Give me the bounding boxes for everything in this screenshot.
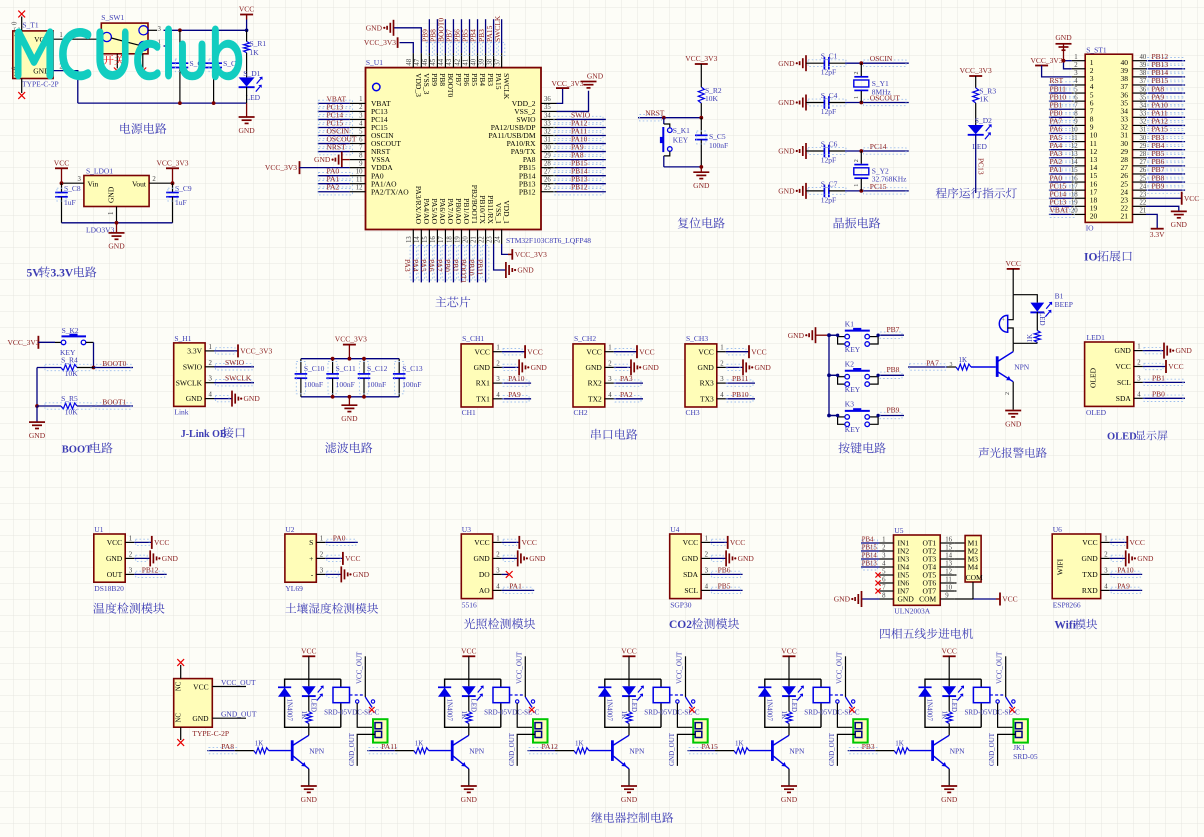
pin 24 VDD_1 of U1	[501, 230, 503, 245]
diode 1N4007	[758, 688, 771, 697]
svg-text:PA4/AO: PA4/AO	[422, 198, 431, 224]
svg-text:1: 1	[209, 344, 212, 351]
svg-text:1: 1	[854, 96, 860, 99]
svg-text:2: 2	[854, 159, 860, 162]
svg-text:16: 16	[945, 537, 952, 544]
svg-text:VCC: VCC	[941, 647, 956, 656]
svg-text:18: 18	[446, 236, 453, 243]
svg-text:2: 2	[854, 72, 860, 75]
relay LED	[788, 679, 790, 686]
no-connect at U3 pin 3	[502, 573, 509, 575]
svg-text:4: 4	[705, 583, 709, 590]
wire+net PA5 (vertical bottom)	[428, 244, 430, 282]
wire+net PB13	[861, 566, 880, 568]
svg-text:BOOT0: BOOT0	[102, 359, 126, 368]
wire+net BOOT1 (vertical bottom)	[469, 244, 471, 282]
svg-text:0: 0	[12, 21, 19, 25]
wire+net PB9	[1146, 189, 1185, 191]
svg-text:9: 9	[1074, 119, 1078, 126]
svg-text:17: 17	[438, 236, 445, 243]
pin 4 GND of S_H1	[205, 398, 214, 400]
svg-text:GND: GND	[682, 554, 699, 563]
pin 2 GND of S_CH1	[493, 366, 502, 368]
wire+net PB14	[1146, 76, 1185, 78]
wire+net SWCLK	[214, 382, 254, 384]
svg-text:GND: GND	[531, 363, 548, 372]
module U2 YL69	[285, 534, 316, 582]
pin 45 PB8 of U1	[436, 53, 438, 68]
svg-text:VCC: VCC	[527, 347, 542, 356]
svg-text:21: 21	[470, 236, 477, 243]
svg-text:M4: M4	[968, 563, 979, 572]
svg-text:13: 13	[406, 236, 413, 243]
power VCC at pin 23	[1146, 197, 1182, 199]
wire+net PB0	[1143, 397, 1185, 399]
svg-text:VCC: VCC	[621, 647, 636, 656]
svg-text:100nF: 100nF	[367, 380, 386, 389]
svg-text:PB9: PB9	[430, 73, 439, 86]
svg-text:PA7: PA7	[435, 259, 444, 272]
connector jack (green)	[1013, 719, 1028, 742]
svg-text:12pF: 12pF	[821, 68, 836, 77]
svg-text:GND: GND	[778, 147, 795, 156]
connector jack (green)	[693, 719, 708, 742]
svg-text:VCC: VCC	[239, 5, 254, 14]
wire+net PB13	[557, 183, 606, 185]
svg-text:3: 3	[496, 376, 500, 383]
svg-text:VCC_3V3: VCC_3V3	[265, 163, 297, 172]
pin 20 PB2/BOOT1 of U1	[469, 230, 471, 245]
wire key to BOOT0 node	[93, 342, 95, 367]
svg-text:SWIO: SWIO	[225, 358, 245, 367]
svg-text:VCC: VCC	[751, 347, 766, 356]
svg-text:12: 12	[356, 185, 363, 192]
svg-text:PA7/AO: PA7/AO	[446, 198, 455, 224]
svg-text:GND: GND	[529, 554, 546, 563]
pin 7 of S_ST1 (left)	[1072, 108, 1086, 110]
svg-text:PA10: PA10	[508, 374, 525, 383]
svg-text:S_K1: S_K1	[673, 126, 690, 135]
pin 27 PB14 of U1	[541, 175, 557, 177]
svg-text:S_R4: S_R4	[61, 355, 78, 364]
svg-text:KEY: KEY	[845, 425, 861, 434]
pin 2 IN2 of U5	[880, 550, 894, 552]
transistor NPN relay	[931, 740, 934, 761]
svg-text:U1: U1	[94, 525, 103, 534]
power VCC_3V3 right of LDO	[166, 167, 179, 169]
mcu U1 STM32F103C8T6 body	[366, 68, 542, 230]
svg-text:2: 2	[152, 176, 156, 183]
wire+net PA3	[614, 382, 643, 384]
svg-text:30: 30	[544, 144, 551, 151]
svg-text:1K: 1K	[300, 711, 308, 720]
power VCC for LDO	[55, 167, 68, 169]
resistor S_R4 10K	[37, 367, 61, 369]
svg-text:1K: 1K	[415, 739, 424, 747]
pin 2 PC13 of U1	[350, 110, 366, 112]
key S_K1 KEY (vertical)	[663, 118, 665, 124]
svg-text:14: 14	[414, 236, 421, 243]
svg-text:6: 6	[1074, 94, 1078, 101]
svg-text:3: 3	[359, 112, 363, 119]
svg-text:S_U1: S_U1	[366, 58, 383, 67]
power GND for S_C4	[805, 95, 807, 111]
svg-text:VCC: VCC	[1130, 538, 1145, 547]
key K2 KEY	[827, 373, 831, 377]
svg-text:GND: GND	[314, 155, 331, 164]
connector M1-M4 stepper motor	[965, 536, 981, 583]
pin 2 GND of U6	[1101, 557, 1110, 559]
relay coil	[653, 687, 670, 702]
pin 4 SDA of LED1	[1134, 397, 1143, 399]
svg-text:2: 2	[496, 360, 500, 367]
wire base net PA11	[367, 750, 395, 752]
svg-text:5: 5	[359, 128, 363, 135]
power GND at U6	[1110, 557, 1126, 559]
svg-text:S: S	[309, 538, 313, 547]
svg-text:1: 1	[705, 535, 708, 542]
title 继电器控制电路 text	[591, 812, 602, 823]
pin 3 RX2 of S_CH2	[605, 382, 614, 384]
svg-text:PB11: PB11	[475, 259, 484, 276]
pin 2 SWIO of S_H1	[205, 366, 214, 368]
svg-text:20: 20	[462, 236, 469, 243]
pin 9 COM of U5	[940, 598, 954, 600]
ground GND relay cell	[461, 785, 477, 787]
wire COM vertical	[972, 582, 974, 599]
wire+net PB7 (vertical)	[452, 19, 454, 53]
svg-text:1K: 1K	[959, 356, 968, 364]
pin 7 NRST of U1	[350, 151, 366, 153]
svg-text:1: 1	[359, 96, 362, 103]
pin NC top	[180, 665, 182, 679]
wire+net PB13	[1146, 68, 1185, 70]
module U3 5516	[461, 534, 492, 599]
ground GND relay cell	[941, 785, 957, 787]
relay cell VCC (PA8)	[302, 655, 315, 657]
svg-text:PA3: PA3	[620, 374, 633, 383]
power VCC_3V3 top of U1	[400, 43, 414, 54]
pin 3 of S_ST1 (left)	[1072, 76, 1086, 78]
power GND for S_C6	[805, 143, 807, 159]
svg-text:VDD_1: VDD_1	[502, 200, 511, 224]
ic U5 ULN2003A	[894, 535, 941, 605]
pin 42 PB6 of U1	[460, 53, 462, 68]
svg-text:PB7: PB7	[454, 73, 463, 86]
pin 3 PC14 of U1	[350, 118, 366, 120]
module U6 ESP8266	[1052, 534, 1101, 599]
pin 14 of S_ST1 (left)	[1072, 165, 1086, 167]
svg-text:43: 43	[446, 58, 453, 65]
svg-text:16: 16	[430, 236, 437, 243]
pin 16 PA6/AO of U1	[436, 230, 438, 245]
svg-text:1K: 1K	[735, 739, 744, 747]
power VCC at U2	[325, 557, 343, 559]
svg-text:PB15: PB15	[862, 545, 878, 552]
svg-text:GND: GND	[366, 23, 383, 32]
wire NO contact to jack	[677, 703, 693, 727]
svg-text:2: 2	[705, 551, 709, 558]
svg-text:NPN: NPN	[950, 746, 966, 755]
svg-text:GND: GND	[834, 595, 851, 604]
svg-text:GND: GND	[586, 363, 603, 372]
svg-text:1K: 1K	[255, 739, 264, 747]
svg-text:5: 5	[882, 569, 886, 576]
wire+net PB6 (vertical)	[460, 19, 462, 53]
wire+net PA6	[1049, 133, 1072, 135]
svg-text:1: 1	[1137, 344, 1140, 351]
svg-text:PA9: PA9	[1117, 581, 1130, 590]
wire+net PB10 (vertical bottom)	[477, 244, 479, 282]
svg-text:3.3V: 3.3V	[51, 268, 74, 280]
svg-text:S_C12: S_C12	[367, 364, 388, 373]
svg-text:VCC: VCC	[474, 538, 489, 547]
pin 1 VCC of U1	[125, 541, 134, 543]
capacitor S_C2 104	[179, 30, 181, 63]
svg-text:2: 2	[209, 360, 213, 367]
wire+net PA3 (vertical bottom)	[412, 244, 414, 282]
wire+net PB12	[1146, 60, 1185, 62]
wire+net PA10	[1110, 573, 1143, 575]
transistor NPN (alarm)	[996, 356, 999, 377]
pin 7 IN7 of U5	[880, 590, 894, 592]
svg-text:VCC_OUT: VCC_OUT	[221, 678, 256, 687]
pin 16 OT1 of U5	[940, 542, 954, 544]
svg-text:TXD: TXD	[1082, 570, 1098, 579]
pin 25 PB12 of U1	[541, 191, 557, 193]
svg-text:S_C6: S_C6	[821, 140, 838, 149]
svg-text:LED: LED	[1038, 312, 1046, 326]
pin 12 of S_ST1 (left)	[1072, 149, 1086, 151]
svg-text:39: 39	[1140, 62, 1147, 69]
svg-text:20: 20	[1090, 212, 1098, 221]
pin 14 OT3 of U5	[940, 558, 954, 560]
svg-text:TX1: TX1	[476, 394, 490, 403]
title 程序运行指示灯 text	[936, 188, 947, 199]
svg-text:S_CH3: S_CH3	[686, 334, 708, 343]
pin 30 of S_ST1 (right)	[1133, 141, 1147, 143]
relay switch (SPDT)	[350, 694, 363, 696]
pin 8 of S_ST1 (left)	[1072, 116, 1086, 118]
diode 1N4007	[438, 688, 451, 697]
capacitor S_C9 1uF	[172, 183, 174, 192]
svg-text:U5: U5	[894, 526, 903, 535]
svg-text:32: 32	[1140, 119, 1147, 126]
switch bottom stubs with no-ERC	[116, 54, 118, 69]
svg-text:RX3: RX3	[700, 379, 714, 388]
svg-text:6: 6	[882, 577, 886, 584]
pin 24 of S_ST1 (right)	[1133, 189, 1147, 191]
svg-text:VCC_OUT: VCC_OUT	[676, 651, 684, 684]
svg-text:PA3: PA3	[403, 259, 412, 272]
svg-text:RX2: RX2	[588, 379, 602, 388]
relay cell VCC (PA12)	[623, 655, 636, 657]
svg-text:8MHz: 8MHz	[872, 88, 892, 97]
svg-text:100nF: 100nF	[709, 141, 728, 150]
wire emitter to GND	[1012, 382, 1014, 410]
pin 1 VCC of S_CH1	[493, 351, 502, 353]
svg-text:BEEP: BEEP	[1055, 300, 1073, 309]
pin 15 of S_ST1 (left)	[1072, 173, 1086, 175]
pin 26 of S_ST1 (right)	[1133, 173, 1147, 175]
wire keys bus	[828, 335, 830, 415]
wire GND_OUT from jack	[517, 734, 535, 766]
svg-text:3: 3	[77, 176, 81, 183]
resistor S_R3 1K	[973, 88, 979, 103]
title 四相五线步进电机 text	[880, 629, 890, 639]
pin 43 PB7 of U1	[452, 53, 454, 68]
pin 14 PA4/AO of U1	[420, 230, 422, 245]
wire+net SWIO	[214, 366, 254, 368]
svg-text:SWCLK: SWCLK	[176, 378, 203, 387]
svg-text:TX3: TX3	[700, 394, 714, 403]
svg-text:14: 14	[945, 553, 952, 560]
pin 11 of S_ST1 (left)	[1072, 141, 1086, 143]
svg-text:CO2: CO2	[669, 619, 692, 631]
pin 13 of S_ST1 (left)	[1072, 157, 1086, 159]
svg-text:S_CH1: S_CH1	[462, 334, 484, 343]
svg-text:GND: GND	[1176, 346, 1193, 355]
wire+net PA12	[1146, 124, 1185, 126]
svg-text:2: 2	[1104, 551, 1108, 558]
pin 19 PB1/AO of U1	[460, 230, 462, 245]
svg-text:24: 24	[1140, 183, 1147, 190]
resistor 1K base	[254, 748, 269, 754]
power 3.3V at pin 21	[1146, 214, 1157, 228]
wire+net PB5 (vertical)	[469, 19, 471, 53]
wire top rail VCC	[164, 29, 247, 31]
svg-text:GND: GND	[788, 331, 805, 340]
svg-text:GND: GND	[29, 431, 46, 440]
pin 4 TX3 of S_CH3	[717, 398, 726, 400]
relay cell VCC (PA15)	[783, 655, 796, 657]
pin 2 of S_ST1 (left)	[1072, 68, 1086, 70]
svg-text:1: 1	[108, 212, 115, 215]
svg-text:KEY: KEY	[673, 135, 689, 144]
svg-text:RXD: RXD	[1082, 586, 1098, 595]
wire+net PB4	[1146, 149, 1185, 151]
svg-text:BOOT: BOOT	[62, 444, 92, 455]
wire+net PC14	[1049, 197, 1072, 199]
wire NRST net	[638, 117, 701, 119]
wire+net PA9	[1110, 589, 1143, 591]
svg-text:GND: GND	[1115, 346, 1132, 355]
svg-text:4: 4	[1137, 391, 1141, 398]
pin 32 PA11/USB/DM of U1	[541, 135, 557, 137]
pin 10 PA0 of U1	[350, 175, 366, 177]
wire+net VBAT	[318, 102, 350, 104]
svg-text:U6: U6	[1053, 525, 1062, 534]
svg-text:PB4: PB4	[478, 73, 487, 86]
pin 4 TX1 of S_CH1	[493, 398, 502, 400]
transistor NPN relay	[611, 740, 614, 761]
svg-text:PB10: PB10	[467, 259, 476, 276]
svg-text:VCC_3V3: VCC_3V3	[335, 335, 367, 344]
pin 3 RX3 of S_CH3	[717, 382, 726, 384]
svg-text:VCC: VCC	[522, 538, 537, 547]
svg-text:TYPE-C-2P: TYPE-C-2P	[22, 80, 59, 89]
capacitor S_C3 104	[213, 30, 215, 63]
diode 1N4007	[598, 688, 611, 697]
capacitor S_C5 100nF	[700, 118, 702, 136]
power VCC top right	[240, 14, 253, 16]
svg-text:SWCLK: SWCLK	[493, 15, 502, 42]
wire+net PA15	[1146, 133, 1185, 135]
power VCC_3V3 bottom of U1	[502, 244, 508, 254]
power GND at J-Link pin 4	[214, 398, 232, 400]
power VCC_3V3 indicator	[969, 75, 982, 77]
svg-text:GND: GND	[643, 363, 660, 372]
wire emitter to GND	[468, 769, 470, 786]
svg-text:13: 13	[945, 561, 952, 568]
header S_ST1 IO body	[1085, 54, 1132, 222]
wire NO contact to jack	[517, 703, 533, 727]
wire+net PB0 (vertical bottom)	[452, 244, 454, 282]
wire NO contact to jack	[998, 703, 1014, 727]
svg-text:1K: 1K	[1026, 334, 1034, 343]
crystal S_Y1 8MHz	[860, 63, 862, 76]
svg-text:PB6: PB6	[462, 73, 471, 86]
svg-text:PC14: PC14	[870, 142, 887, 151]
power GND at S_CH2	[614, 366, 631, 368]
svg-text:GND: GND	[1081, 554, 1098, 563]
svg-text:5: 5	[1074, 86, 1078, 93]
svg-text:PA3/RX/AO: PA3/RX/AO	[414, 186, 423, 225]
svg-text:PB10/TX: PB10/TX	[478, 195, 487, 224]
wire OT3 to motor connector	[954, 558, 965, 560]
wire+net PA0	[318, 175, 350, 177]
svg-text:1: 1	[854, 184, 860, 187]
svg-text:VCC: VCC	[345, 554, 360, 563]
wire+net PA11	[1146, 116, 1185, 118]
svg-text:ESP8266: ESP8266	[1053, 600, 1081, 609]
pin 3 IN3 of U5	[880, 558, 894, 560]
pin 12 PA2/TX/AO of U1	[350, 191, 366, 193]
power GND at U4	[710, 557, 726, 559]
svg-text:GND: GND	[186, 394, 203, 403]
svg-text:100nF: 100nF	[336, 380, 355, 389]
module U4 SGP30	[670, 534, 701, 599]
title 声光报警电路 text	[979, 447, 989, 458]
svg-text:VCC: VCC	[1115, 362, 1130, 371]
svg-text:SRD-05VDC-SL-C: SRD-05VDC-SL-C	[644, 709, 700, 717]
svg-text:VCC: VCC	[1005, 259, 1020, 268]
capacitor S_C13 100nF	[398, 359, 400, 374]
svg-text:29: 29	[544, 152, 551, 159]
svg-text:44: 44	[438, 58, 445, 65]
svg-text:VCC: VCC	[698, 347, 713, 356]
wire+net PA7 (vertical bottom)	[444, 244, 446, 282]
svg-text:SGP30: SGP30	[670, 600, 692, 609]
svg-text:100nF: 100nF	[304, 380, 323, 389]
pin 4 TX2 of S_CH2	[605, 398, 614, 400]
svg-text:TX2: TX2	[588, 394, 602, 403]
regulator S_LDO1 LDO3V3	[84, 176, 149, 207]
capacitor S_C7 12pF	[806, 190, 824, 192]
svg-text:NPN: NPN	[469, 746, 485, 755]
svg-text:PA2: PA2	[620, 390, 633, 399]
power VCC at S_CH1	[502, 351, 525, 353]
wire+net PB3	[1146, 141, 1185, 143]
svg-text:7: 7	[1074, 102, 1078, 109]
svg-text:GND: GND	[192, 714, 209, 723]
svg-text:OLED: OLED	[1086, 408, 1107, 417]
wire+net PA2	[318, 191, 350, 193]
wire+net PA2	[1049, 165, 1072, 167]
svg-text:GND_OUT: GND_OUT	[508, 732, 516, 766]
svg-text:S_C13: S_C13	[402, 364, 423, 373]
pin 11 PA1/AO of U1	[350, 183, 366, 185]
